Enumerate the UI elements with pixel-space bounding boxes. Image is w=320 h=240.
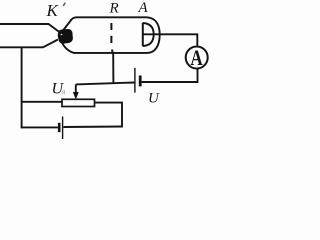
- label A (ammeter): [190, 46, 203, 71]
- wire battery U to grid node and potentiometer wiper: [76, 83, 135, 85]
- battery bottom positive plate (long): [62, 116, 64, 139]
- wire anode lead to ammeter: [143, 34, 198, 46]
- ammeter A: [186, 47, 208, 69]
- wire potentiometer left terminal: [22, 101, 62, 103]
- battery bottom negative plate (short thick): [58, 123, 61, 132]
- wire ammeter bottom to battery U: [142, 69, 198, 82]
- wire left vertical branch: [21, 47, 23, 128]
- label K prime tick: [63, 3, 65, 6]
- svg-text:U: U: [148, 91, 160, 107]
- wire bottom left to battery: [21, 126, 58, 128]
- svg-text:A: A: [138, 0, 149, 16]
- wire filament lead top: [0, 24, 60, 33]
- battery U negative plate (short thick): [139, 76, 142, 87]
- svg-text:я: я: [61, 88, 65, 96]
- wire battery bottom to right corner: [64, 126, 123, 129]
- svg-text:A: A: [190, 46, 203, 71]
- svg-text:K: K: [46, 1, 60, 20]
- cathode K: [58, 30, 72, 43]
- wire grid R lead: [112, 53, 114, 84]
- potentiometer wiper arrow: [75, 84, 77, 93]
- potentiometer resistor body: [62, 99, 95, 106]
- grid R dashed electrode: [110, 23, 112, 30]
- wire filament lead bottom: [0, 40, 58, 48]
- battery U positive plate (long): [134, 68, 136, 93]
- anode A plate: [143, 23, 154, 46]
- tube envelope: [62, 17, 160, 53]
- wire potentiometer right terminal down: [95, 103, 123, 127]
- svg-text:R: R: [109, 1, 119, 17]
